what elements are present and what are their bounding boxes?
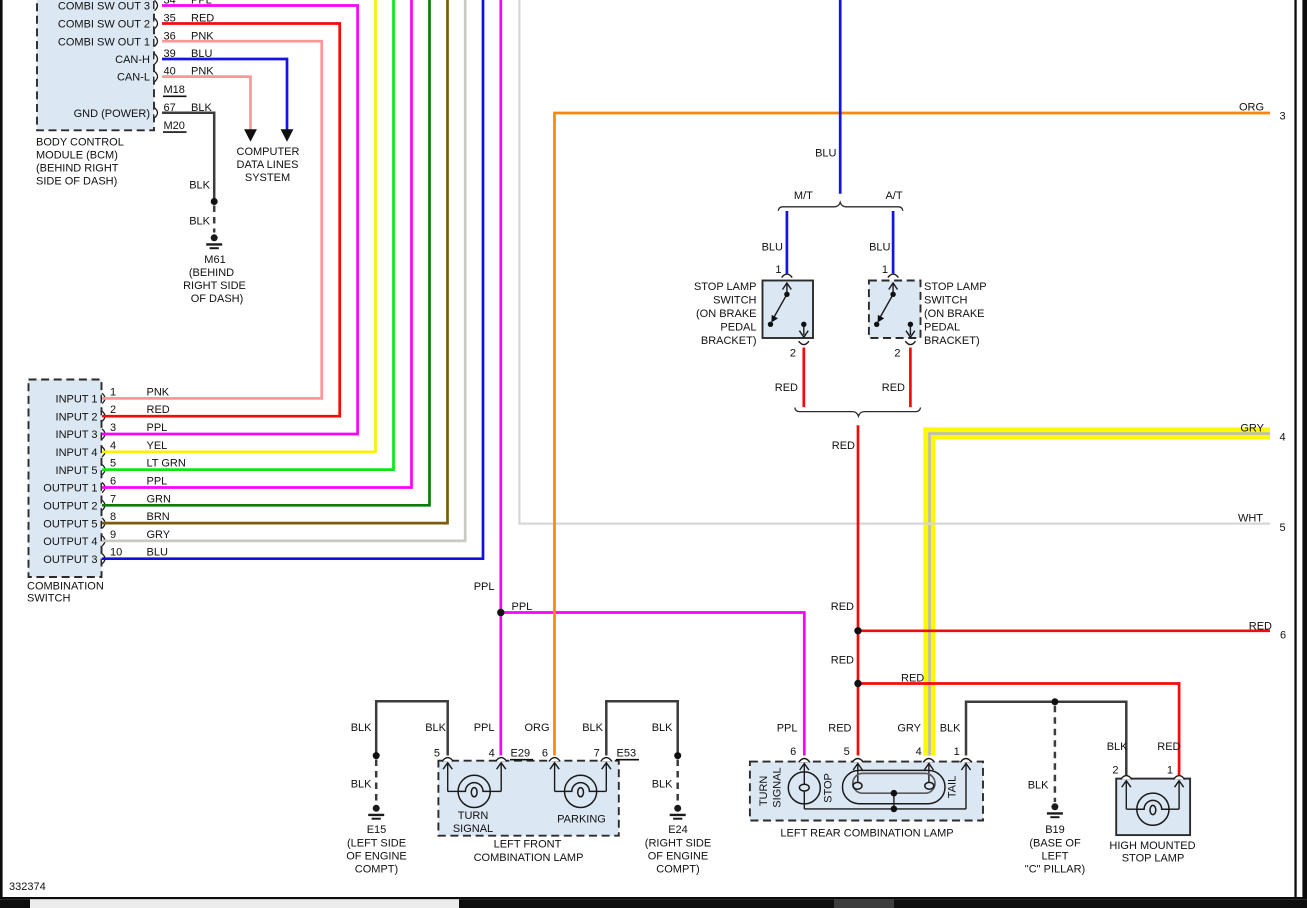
svg-text:9: 9 [110, 529, 116, 541]
parking bulb [565, 775, 597, 807]
svg-text:TAIL: TAIL [947, 776, 959, 798]
connector M18 [163, 84, 187, 96]
junction RED circuit 6 [854, 627, 861, 634]
wire BLK dashed to E24 ground [676, 760, 679, 804]
wire YEL CS4 [102, 0, 376, 452]
svg-text:RED: RED [1249, 621, 1272, 633]
wire BLK dashed to E15 ground [375, 760, 378, 804]
high mounted stop lamp box [1116, 779, 1190, 836]
svg-text:E53: E53 [617, 748, 637, 760]
svg-text:SWITCH: SWITCH [27, 593, 70, 605]
svg-text:SIGNAL: SIGNAL [453, 823, 493, 835]
splice node E24 [674, 752, 681, 759]
bottom bar gray segment [834, 899, 894, 908]
svg-text:ORG: ORG [1239, 102, 1264, 114]
ground M61 [206, 234, 222, 248]
HMSL pin labels [1112, 765, 1173, 777]
wire BLK front lamp pin 5 to E15 [376, 701, 448, 755]
left rear combination lamp box [750, 762, 983, 821]
rear lamp junction nodes [891, 790, 898, 812]
svg-text:DATA LINES: DATA LINES [237, 159, 299, 171]
splice node [211, 198, 218, 205]
M/T switch internals [774, 283, 808, 337]
svg-text:PNK: PNK [147, 386, 170, 398]
svg-text:OF ENGINE: OF ENGINE [346, 851, 407, 863]
ground E15 caption [346, 824, 407, 876]
front lamp pin 6 notch [549, 758, 560, 762]
wire BRN CS8 [102, 0, 448, 523]
svg-text:3: 3 [110, 422, 116, 434]
svg-text:8: 8 [110, 511, 116, 523]
wire RED circuit 6 [858, 629, 1270, 632]
svg-text:BLU: BLU [762, 242, 783, 254]
svg-text:3: 3 [1280, 111, 1286, 123]
svg-text:GND (POWER): GND (POWER) [74, 108, 150, 120]
wire WHT circuit 5 [519, 0, 1270, 524]
connector E29 [510, 748, 533, 760]
svg-text:SIDE OF DASH): SIDE OF DASH) [36, 176, 117, 188]
junction RED to high mounted stop lamp [854, 680, 861, 687]
svg-text:E15: E15 [367, 824, 387, 836]
label ORG 3 [1239, 102, 1286, 123]
BCM pin numbers and wire colors [164, 0, 215, 114]
wire RED stop lamp feed [857, 425, 860, 755]
svg-text:LT GRN: LT GRN [147, 458, 186, 470]
svg-text:BRACKET): BRACKET) [701, 335, 757, 347]
computer data lines caption [237, 146, 300, 184]
svg-text:B19: B19 [1045, 824, 1065, 836]
svg-text:LEFT: LEFT [1042, 851, 1069, 863]
BCM pin bracket 67 [155, 108, 158, 118]
label TURN SIGNAL vertical [758, 767, 784, 807]
svg-text:TURN: TURN [458, 810, 489, 822]
svg-text:BLK: BLK [189, 216, 210, 228]
svg-text:PPL: PPL [474, 581, 495, 593]
svg-text:10: 10 [110, 547, 122, 559]
rear lamp pin 5 notch [852, 759, 863, 763]
A/T switch pin 1 notch [888, 274, 899, 278]
label GRY 4 [1240, 423, 1285, 444]
page border left [0, 0, 3, 899]
svg-text:M61: M61 [204, 254, 225, 266]
svg-text:RED: RED [775, 382, 798, 394]
svg-text:BLK: BLK [1107, 741, 1128, 753]
bottom scrollbar track [0, 899, 1307, 908]
svg-text:COMPT): COMPT) [355, 864, 398, 876]
svg-text:HIGH MOUNTED: HIGH MOUNTED [1109, 840, 1195, 852]
svg-text:STOP LAMP: STOP LAMP [924, 281, 987, 293]
HMSL pin 1 notch [1174, 776, 1185, 780]
svg-text:5: 5 [1280, 522, 1286, 534]
svg-text:ORG: ORG [524, 722, 549, 734]
ground E24 [670, 805, 686, 819]
svg-text:PARKING: PARKING [557, 814, 606, 826]
svg-text:BLK: BLK [652, 722, 673, 734]
wire BLU CS10 [102, 0, 483, 559]
svg-text:OUTPUT 5: OUTPUT 5 [43, 518, 97, 530]
front lamp pin 5 notch [442, 758, 453, 762]
svg-text:OUTPUT 1: OUTPUT 1 [43, 483, 97, 495]
svg-text:INPUT 1: INPUT 1 [56, 394, 98, 406]
HMSL pin arrows and wires [1126, 781, 1179, 809]
ground E15 [368, 805, 384, 819]
svg-text:BODY CONTROL: BODY CONTROL [36, 137, 124, 149]
svg-text:GRY: GRY [1240, 423, 1264, 435]
svg-text:(ON BRAKE: (ON BRAKE [696, 308, 757, 320]
label RED 6 [1249, 621, 1286, 642]
svg-text:PPL: PPL [147, 422, 168, 434]
svg-text:COMPUTER: COMPUTER [237, 146, 300, 158]
svg-text:(LEFT SIDE: (LEFT SIDE [347, 838, 406, 850]
BCM caption [36, 137, 124, 188]
wire RED from A/T switch pin 2 [909, 348, 912, 408]
svg-text:OUTPUT 2: OUTPUT 2 [43, 501, 97, 513]
BCM pin bracket 34 [155, 0, 158, 10]
rear lamp internal wires [804, 764, 966, 809]
svg-text:BLK: BLK [351, 722, 372, 734]
svg-text:(BASE OF: (BASE OF [1029, 838, 1081, 850]
BCM pin bracket 39 [155, 54, 158, 64]
svg-text:2: 2 [894, 347, 900, 359]
wire CAN-H BLU to data lines [162, 59, 287, 130]
svg-text:BLK: BLK [940, 723, 961, 735]
high mounted stop lamp bulb [1137, 793, 1169, 825]
svg-text:6: 6 [110, 476, 116, 488]
wire RED to high mounted stop lamp [858, 684, 1179, 776]
svg-text:GRY: GRY [897, 723, 921, 735]
wire BLK front lamp pin 7 to E24 [606, 701, 677, 755]
A/T switch pin 2 notch [905, 341, 915, 344]
front lamp pin labels [434, 748, 600, 760]
turn signal bulb [458, 775, 490, 807]
svg-text:5: 5 [844, 746, 850, 758]
ground E24 caption [645, 824, 711, 876]
svg-text:(BEHIND: (BEHIND [189, 267, 234, 279]
svg-text:RED: RED [1157, 741, 1180, 753]
wire PPL from top [499, 0, 502, 613]
svg-text:RED: RED [147, 404, 170, 416]
M/T switch caption [694, 281, 757, 347]
connector E53 [616, 748, 639, 760]
BCM pin labels [58, 1, 150, 120]
rear lamp pin 4 notch [923, 759, 934, 763]
svg-text:BLK: BLK [652, 779, 673, 791]
rear lamp pin 1 notch [960, 759, 971, 763]
wire PNK BCM36 to CS1 [102, 41, 322, 398]
svg-text:RED: RED [882, 382, 905, 394]
svg-text:RED: RED [831, 601, 854, 613]
wire RED from M/T switch pin 2 [802, 348, 805, 408]
svg-text:4: 4 [110, 440, 116, 452]
wire GRN CS7 [102, 0, 430, 505]
bottom scrollbar thumb [30, 899, 459, 908]
svg-text:BLU: BLU [869, 242, 890, 254]
wire GRY circuit 4 [930, 434, 1271, 756]
svg-text:1: 1 [954, 746, 960, 758]
wire BLK rear lamp pin 1 to B19 [966, 702, 1126, 775]
svg-text:CAN-L: CAN-L [117, 72, 150, 84]
front lamp pin arrows and wires [448, 763, 607, 791]
svg-text:1: 1 [775, 264, 781, 276]
M/T switch pin 2 notch [799, 341, 809, 344]
svg-text:COMBI SW OUT 1: COMBI SW OUT 1 [58, 36, 150, 48]
svg-text:(RIGHT SIDE: (RIGHT SIDE [645, 838, 711, 850]
wire PPL CS6 [102, 0, 412, 488]
svg-text:PPL: PPL [777, 723, 798, 735]
svg-text:STOP: STOP [823, 773, 835, 803]
svg-text:INPUT 4: INPUT 4 [56, 447, 98, 459]
ground M61 caption [183, 254, 246, 305]
connector M20 [163, 120, 187, 132]
svg-text:6: 6 [790, 746, 796, 758]
svg-text:LEFT REAR COMBINATION LAMP: LEFT REAR COMBINATION LAMP [780, 827, 953, 839]
svg-text:6: 6 [542, 748, 548, 760]
svg-text:7: 7 [594, 748, 600, 760]
M/T switch pin 1 notch [782, 274, 793, 278]
svg-text:STOP LAMP: STOP LAMP [694, 281, 757, 293]
svg-text:TURN: TURN [758, 776, 770, 807]
label TURN SIGNAL [453, 810, 493, 835]
svg-text:1: 1 [110, 386, 116, 398]
wire PPL to front lamp pin 4 [499, 613, 502, 756]
svg-text:INPUT 5: INPUT 5 [56, 465, 98, 477]
A/T switch caption [924, 281, 987, 347]
svg-text:1: 1 [1167, 765, 1173, 777]
svg-text:PPL: PPL [474, 722, 495, 734]
A/T switch internals [880, 283, 915, 337]
wire PPL BCM34 to CS3 [102, 6, 358, 435]
svg-text:BLU: BLU [147, 547, 168, 559]
svg-text:6: 6 [1280, 630, 1286, 642]
junction PPL [497, 609, 504, 616]
svg-text:(ON BRAKE: (ON BRAKE [924, 308, 985, 320]
svg-text:5: 5 [110, 458, 116, 470]
svg-text:SWITCH: SWITCH [924, 295, 967, 307]
svg-text:BLK: BLK [351, 779, 372, 791]
svg-text:LEFT FRONT: LEFT FRONT [494, 839, 562, 851]
wire GND BLK pin 67 [162, 113, 214, 200]
label WHT 5 [1238, 513, 1286, 535]
wire GRY CS9 [102, 0, 465, 541]
splice node B19 [1051, 698, 1058, 705]
svg-text:GRN: GRN [147, 493, 172, 505]
front lamp caption [474, 839, 584, 865]
svg-text:OF ENGINE: OF ENGINE [648, 851, 709, 863]
BCM pin bracket 35 [155, 18, 158, 28]
wire LT GRN CS5 [102, 0, 394, 470]
arrow CAN-H [281, 129, 294, 142]
wire GRY circuit 4 yellow highlight band [923, 427, 1270, 755]
M/T switch contacts [768, 292, 807, 327]
wire BLU from top [839, 0, 842, 194]
HMSL caption [1109, 840, 1195, 865]
arrow CAN-L [244, 129, 257, 142]
CS caption [27, 581, 104, 605]
svg-text:(BEHIND RIGHT: (BEHIND RIGHT [36, 163, 119, 175]
svg-text:RIGHT SIDE: RIGHT SIDE [183, 280, 246, 292]
page border right inner [1294, 0, 1296, 899]
svg-text:COMBINATION LAMP: COMBINATION LAMP [474, 852, 584, 864]
brace joining RED wires [795, 408, 921, 417]
wire PPL to rear lamp pin 6 [501, 613, 805, 756]
svg-text:BRACKET): BRACKET) [924, 335, 980, 347]
stop lamp switch A/T box [869, 281, 921, 339]
svg-text:A/T: A/T [885, 190, 902, 202]
stop lamp switch M/T box [763, 281, 814, 339]
svg-text:RED: RED [832, 440, 855, 452]
CS pin labels [43, 394, 97, 566]
svg-text:2: 2 [790, 347, 796, 359]
svg-text:INPUT 2: INPUT 2 [56, 411, 98, 423]
svg-text:4: 4 [916, 746, 922, 758]
combination switch box [29, 380, 102, 578]
svg-text:WHT: WHT [1238, 513, 1263, 525]
svg-text:7: 7 [110, 493, 116, 505]
svg-text:SIGNAL: SIGNAL [772, 767, 784, 807]
svg-text:SWITCH: SWITCH [713, 295, 756, 307]
svg-text:INPUT 3: INPUT 3 [56, 429, 98, 441]
svg-text:332374: 332374 [9, 881, 46, 893]
splice node E15 [373, 752, 380, 759]
svg-text:SYSTEM: SYSTEM [245, 172, 290, 184]
svg-text:PEDAL: PEDAL [720, 322, 756, 334]
rear lamp pin 6 notch [799, 759, 810, 763]
svg-text:STOP LAMP: STOP LAMP [1122, 853, 1185, 865]
svg-text:5: 5 [434, 748, 440, 760]
svg-text:COMPT): COMPT) [656, 864, 699, 876]
svg-text:4: 4 [1280, 432, 1286, 444]
svg-text:M20: M20 [164, 120, 185, 132]
left front combination lamp box [438, 761, 618, 836]
wire ORG circuit 3 [555, 113, 1271, 756]
page border right outer [1302, 0, 1307, 899]
svg-text:GRY: GRY [147, 529, 171, 541]
rear turn signal bulb [788, 772, 820, 804]
svg-text:E29: E29 [511, 748, 531, 760]
A/T switch contacts [874, 292, 913, 327]
svg-text:PPL: PPL [147, 476, 168, 488]
rear lamp pin arrows [800, 764, 971, 771]
svg-text:2: 2 [1112, 765, 1118, 777]
svg-text:2: 2 [110, 404, 116, 416]
svg-text:BLK: BLK [1028, 780, 1049, 792]
svg-text:"C" PILLAR): "C" PILLAR) [1025, 864, 1085, 876]
svg-text:M18: M18 [164, 84, 185, 96]
ground B19 [1047, 803, 1063, 817]
svg-text:RED: RED [828, 723, 851, 735]
svg-text:BRN: BRN [147, 511, 170, 523]
svg-text:PEDAL: PEDAL [924, 322, 960, 334]
svg-text:CAN-H: CAN-H [115, 54, 150, 66]
HMSL pin 2 notch [1121, 776, 1132, 780]
BCM pin bracket 36 [155, 36, 158, 46]
svg-text:BLK: BLK [582, 722, 603, 734]
svg-text:OF DASH): OF DASH) [191, 293, 244, 305]
svg-text:YEL: YEL [147, 440, 168, 452]
svg-text:PPL: PPL [512, 601, 533, 613]
BCM pin bracket 40 [155, 72, 158, 82]
svg-text:E24: E24 [668, 824, 688, 836]
svg-text:RED: RED [901, 673, 924, 685]
CS pin brackets 1-10 [102, 393, 105, 564]
front lamp pin 4 notch [496, 758, 507, 762]
svg-text:M/T: M/T [794, 190, 813, 202]
wire CAN-L PNK to data lines [162, 77, 251, 130]
svg-text:BLK: BLK [189, 180, 210, 192]
wire BLK dashed to B19 ground [1054, 706, 1057, 802]
wire BLU to M/T stop lamp switch [786, 211, 789, 273]
svg-text:1: 1 [882, 264, 888, 276]
svg-text:OUTPUT 4: OUTPUT 4 [43, 536, 97, 548]
wire BLU to A/T stop lamp switch [892, 211, 895, 273]
svg-text:COMBI SW OUT 3: COMBI SW OUT 3 [58, 1, 150, 13]
wire RED BCM35 to CS2 [102, 24, 340, 417]
front lamp pin 7 notch [601, 758, 612, 762]
page border bottom [0, 897, 1307, 899]
ground B19 caption [1025, 824, 1085, 876]
svg-text:BLU: BLU [815, 148, 836, 160]
svg-text:BLK: BLK [425, 722, 446, 734]
CS pin numbers and colors [110, 386, 186, 558]
svg-text:COMBINATION: COMBINATION [27, 581, 104, 593]
svg-text:COMBI SW OUT 2: COMBI SW OUT 2 [58, 19, 150, 31]
svg-text:4: 4 [489, 748, 495, 760]
svg-text:MODULE (BCM): MODULE (BCM) [36, 150, 118, 162]
wire BLK dashed to ground [213, 206, 216, 233]
svg-text:RED: RED [831, 655, 854, 667]
brace M/T A/T [778, 202, 903, 211]
body control module BCM box [37, 0, 154, 130]
stop tail dual filament bulb [843, 770, 946, 803]
rear lamp pin labels [790, 746, 960, 758]
svg-text:OUTPUT 3: OUTPUT 3 [43, 554, 97, 566]
